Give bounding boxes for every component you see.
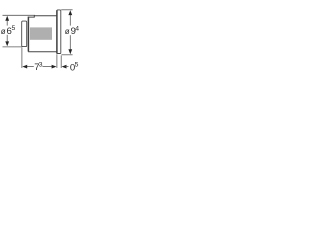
left dim arrow down — [5, 41, 9, 46]
body top edge (stepped) — [28, 16, 57, 17]
top-right extension line — [61, 9, 72, 11]
label 7³ — [34, 62, 43, 74]
label 0⁵ — [70, 62, 79, 74]
right dimension line ø9.4 — [69, 14, 71, 49]
top extension line — [3, 14, 36, 16]
extension line from rosette front down — [56, 54, 58, 68]
label ø 6⁵ — [1, 25, 16, 37]
extension line from rosette back down — [60, 55, 62, 68]
button cap — [22, 21, 27, 46]
dim 7.3 line right part — [42, 66, 52, 68]
bottom-right extension line — [61, 54, 72, 56]
svg-text:5: 5 — [75, 62, 79, 69]
dim 7.3 arrow right — [52, 65, 57, 69]
svg-text:4: 4 — [75, 26, 79, 33]
body front face — [27, 17, 29, 52]
dim 7.3 arrow left — [22, 65, 27, 69]
right dim arrow down — [68, 49, 72, 54]
right dim arrow up — [68, 10, 72, 15]
rosette front face thick — [56, 10, 58, 53]
left dim arrow up — [5, 16, 9, 21]
left dimension line ø6.5 — [6, 20, 8, 42]
bottom-left extension line — [3, 46, 22, 48]
svg-text:ø: ø — [1, 27, 6, 36]
label ø 9⁴ — [65, 26, 80, 38]
rosette plate — [57, 10, 61, 54]
svg-text:5: 5 — [12, 25, 16, 32]
svg-text:ø: ø — [65, 27, 70, 36]
extension line from button face down — [21, 47, 23, 68]
body bottom edge — [28, 51, 57, 53]
dim 0.5 arrow left-pointing — [62, 65, 67, 69]
dim 7.3 line left part — [27, 66, 34, 68]
dim 0.5 line — [66, 66, 69, 68]
svg-text:3: 3 — [39, 62, 43, 69]
gray insert block — [30, 27, 52, 39]
